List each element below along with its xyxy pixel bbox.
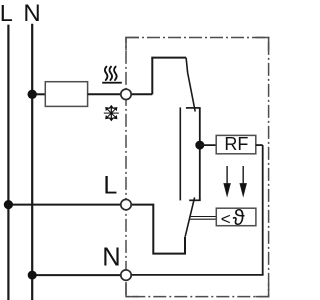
wire L mains vertical <box>7 25 9 300</box>
vertical arm down <box>110 113 112 120</box>
node junction to RF module <box>195 141 204 150</box>
RF module U1 <box>216 135 256 153</box>
wire N rail right vertical <box>262 145 264 275</box>
resistor heater load <box>45 82 87 107</box>
svg-text:N: N <box>23 0 40 27</box>
enclosure dash-dot boundary <box>126 38 269 297</box>
wire junction to RF module <box>200 144 216 146</box>
wire N row <box>32 274 120 276</box>
svg-text:N: N <box>102 244 120 272</box>
wire N rail bottom horizontal <box>131 274 264 276</box>
svg-text:L: L <box>103 171 117 199</box>
svg-text:L: L <box>0 0 13 26</box>
switch blade upper (relay contact) <box>186 58 195 112</box>
wire heat terminal into enclosure <box>131 93 152 95</box>
switch contact bar lower <box>189 199 201 201</box>
switch contact bar upper <box>186 107 201 109</box>
diagonal arms with tips <box>111 107 117 113</box>
svg-text:<ϑ: <ϑ <box>221 205 245 230</box>
node junction on N line (bottom) <box>28 271 37 280</box>
thermostat sensor box <box>216 208 256 226</box>
mechanical link thermostat to blade <box>190 216 216 218</box>
heating symbol <box>105 67 117 80</box>
wire switch pole vertical <box>199 108 201 200</box>
wire L row into enclosure <box>8 204 120 206</box>
snowflake symbol (frost protection) <box>104 105 119 121</box>
terminal L <box>121 199 131 209</box>
horizontal bar <box>104 112 119 114</box>
wire resistor to heat terminal <box>88 93 121 95</box>
wire across to switch blade <box>151 57 186 59</box>
wire L terminal to switch (U shape) <box>131 205 185 254</box>
node junction on N line (heater tap) <box>28 90 37 99</box>
terminal N <box>121 270 131 280</box>
node junction on L line <box>4 200 13 209</box>
svg-text:RF: RF <box>224 134 248 154</box>
wire N line to heater resistor <box>32 93 45 95</box>
switch blade lower <box>185 197 194 236</box>
vertical arm up <box>110 106 112 113</box>
control arrows RF to switch <box>224 166 246 196</box>
wire N mains vertical <box>31 24 33 300</box>
wire up to switch <box>151 58 153 95</box>
switch actuator bar <box>179 107 181 200</box>
terminal heat output <box>121 89 131 99</box>
wire RF to N rail <box>256 144 263 146</box>
